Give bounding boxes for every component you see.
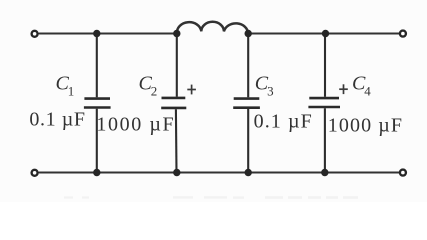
- svg-text:4: 4: [364, 84, 371, 99]
- svg-text:1000 µF: 1000 µF: [328, 114, 403, 136]
- svg-text:0.1 µF: 0.1 µF: [29, 108, 85, 130]
- svg-text:1: 1: [68, 84, 75, 99]
- svg-text:1000 µF: 1000 µF: [96, 113, 175, 135]
- svg-text:3: 3: [267, 84, 274, 99]
- svg-text:0.1 µF: 0.1 µF: [254, 110, 313, 132]
- svg-text:2: 2: [151, 84, 158, 99]
